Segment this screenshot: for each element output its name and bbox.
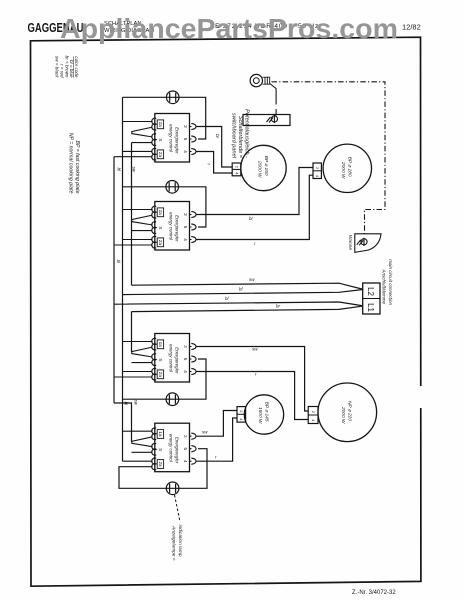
wire crimp to panel (dashed) xyxy=(270,84,276,97)
stub V2 to U1 pins xyxy=(123,122,153,152)
svg-text:BP = fast cooking plate: BP = fast cooking plate xyxy=(74,140,80,193)
svg-text:sw: sw xyxy=(252,347,258,352)
ring terminal (equipotential bonding) xyxy=(250,74,270,86)
label mains connection (rotated) xyxy=(381,259,393,305)
wire lamp1 left xyxy=(123,96,167,98)
svg-text:br: br xyxy=(249,216,253,221)
switchboard panel bar xyxy=(243,115,290,126)
lamp H4 xyxy=(166,482,179,495)
dash-dot boundary line xyxy=(272,82,386,234)
border frame xyxy=(31,37,421,586)
svg-text:Wanne: Wanne xyxy=(347,235,353,250)
jumper link U1 xyxy=(132,127,153,137)
stub V3 to U2 pin xyxy=(132,230,153,232)
jumper link U4 xyxy=(132,437,153,447)
svg-text:Z.-Nr. 3/4072-32: Z.-Nr. 3/4072-32 xyxy=(352,590,396,596)
hot plate BP 145 1500W xyxy=(244,395,283,434)
wire lamp1 right to U1 pin5 xyxy=(179,97,206,139)
wire bus bl to L2 xyxy=(123,289,363,294)
hot plate BP 180 2000W xyxy=(323,144,371,192)
legend BP/NP (rotated) xyxy=(67,133,80,194)
wire U1 pin4 to plate BP150 xyxy=(197,152,233,174)
svg-text:indication lamp: indication lamp xyxy=(177,525,183,557)
wire V1 bus (bl) xyxy=(113,157,115,403)
wire U3 pin2 to plate NP220 xyxy=(197,347,309,412)
wire U2 pin2 to plate BP180 xyxy=(197,168,314,215)
wire U4 pin4 to plate BP145 xyxy=(197,418,238,461)
stub V2 to U3 pins xyxy=(123,342,153,372)
wire lamp2 left xyxy=(123,186,166,188)
wire lamp2 right to U2 pin5 xyxy=(179,187,206,227)
tray ground screw xyxy=(357,238,367,246)
svg-text:2000 W: 2000 W xyxy=(257,160,263,178)
hot plate NP 220 2000W xyxy=(318,383,377,442)
wire lamp3 left xyxy=(123,398,167,400)
hot plate BP 150 2000W xyxy=(241,145,286,190)
svg-text:2000 W: 2000 W xyxy=(340,161,346,179)
lamp H2 xyxy=(166,181,179,194)
op unit U4 energy regulator xyxy=(152,423,196,472)
stub V1 to U3 pin xyxy=(114,376,153,378)
wire bus br to L1 xyxy=(132,306,363,312)
svg-text:AppliancePartsPros.com: AppliancePartsPros.com xyxy=(60,13,398,44)
svg-text:sw: sw xyxy=(131,167,136,173)
svg-text:BP ⌀ 145: BP ⌀ 145 xyxy=(264,402,270,422)
svg-text:switchboard panel: switchboard panel xyxy=(230,113,236,159)
svg-text:1500 W: 1500 W xyxy=(257,407,263,424)
pointer line to lamp label (dashed) xyxy=(175,495,181,522)
svg-text:br: br xyxy=(276,304,280,309)
stub V1 to U1 pin xyxy=(114,156,153,158)
wire V3 bus (sw) xyxy=(131,143,133,286)
stub V3 to U1 pin xyxy=(132,142,153,144)
wire lamp3 right to U3 pin5 xyxy=(179,359,206,399)
lamp H1 xyxy=(166,91,179,104)
svg-text:sw: sw xyxy=(202,430,208,435)
wire V1 corner to U4 xyxy=(114,403,132,442)
svg-text:2000 W: 2000 W xyxy=(340,406,346,424)
stub V1 to U2 pin xyxy=(114,244,153,246)
svg-text:NP = normal cooking plate: NP = normal cooking plate xyxy=(67,133,73,194)
op unit U3 energy regulator xyxy=(152,334,196,383)
plate terminal box BP145 xyxy=(237,407,246,423)
stub V2 to U4 pins xyxy=(123,431,153,461)
svg-text:Anzeigelampe =: Anzeigelampe = xyxy=(171,525,177,561)
svg-text:BP ⌀ 150: BP ⌀ 150 xyxy=(263,156,269,176)
jumper link U3 xyxy=(132,347,153,357)
label indication lamp (rotated) xyxy=(171,525,184,561)
label switchboard panel (rotated) xyxy=(230,109,249,159)
plate terminal box BP150 xyxy=(232,163,241,176)
svg-text:12/82: 12/82 xyxy=(402,23,421,32)
svg-text:Schalterblende =: Schalterblende = xyxy=(237,116,243,159)
svg-text:sw: sw xyxy=(133,400,138,406)
wire V2 bus (bl) xyxy=(122,97,124,461)
svg-text:br: br xyxy=(215,134,220,138)
wire U4 pin2 to plate BP145 xyxy=(197,411,238,437)
svg-text:L2: L2 xyxy=(366,287,375,296)
svg-text:sw = black: sw = black xyxy=(55,56,60,78)
tray tab (Wanne) xyxy=(355,234,381,253)
stub V3c to U4 pin xyxy=(132,451,153,453)
wire bus bl to L1 xyxy=(114,302,363,306)
svg-text:NP ⌀ 220: NP ⌀ 220 xyxy=(347,401,353,421)
wire bus sw to L2 xyxy=(132,283,363,289)
svg-text:L1: L1 xyxy=(366,303,375,312)
svg-text:sw: sw xyxy=(249,277,255,282)
wire U3 pin4 to plate NP220 xyxy=(197,372,309,420)
wire U1 pin2 to plate BP150 xyxy=(197,127,233,168)
op unit U1 energy regulator xyxy=(152,114,196,163)
plate terminal box BP180 xyxy=(313,163,321,179)
jumper link U2 xyxy=(132,215,153,225)
wire lamp4 right to U4 pin5 xyxy=(179,449,207,489)
op unit U2 energy regulator xyxy=(152,202,196,251)
wire V3b bus from br bus to U3 xyxy=(131,312,133,353)
wire lamp4 left to U4 pin xyxy=(119,467,166,489)
svg-text:BP ⌀ 180: BP ⌀ 180 xyxy=(347,157,353,177)
svg-text:main circuit connection: main circuit connection xyxy=(388,259,393,305)
stub V3b to U3 pin xyxy=(132,362,153,364)
stub V2 to U2 pins xyxy=(123,210,153,240)
legend color code (rotated) xyxy=(55,56,79,79)
panel ground screw xyxy=(267,115,278,123)
wire U2 pin4 to plate BP180 xyxy=(197,175,314,239)
terminal block L2/L1 xyxy=(363,283,380,314)
plate terminal box NP220 xyxy=(308,407,318,424)
svg-text:Anschlußklemme: Anschlußklemme xyxy=(381,268,386,304)
frame scan gap artifact xyxy=(419,386,423,408)
lamp H3 xyxy=(166,393,179,406)
